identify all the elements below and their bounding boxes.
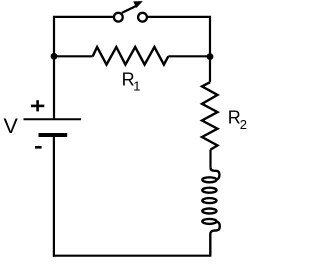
battery minus sign <box>35 146 42 149</box>
battery V top plate (+) <box>24 118 82 120</box>
node A junction dot left <box>51 53 58 60</box>
node B junction dot right <box>207 53 214 60</box>
inductor L1 loop 5 <box>202 219 216 224</box>
inductor L1 loop 2 <box>202 188 216 193</box>
switch S1 lever <box>122 5 138 13</box>
wire: middle row right segment <box>168 55 210 57</box>
resistor R1 <box>93 47 169 65</box>
svg-text:1: 1 <box>133 78 140 93</box>
inductor L1 loop 4 <box>202 209 216 214</box>
battery plus sign <box>31 100 44 111</box>
wire: left vertical lower (battery minus to bottom wire) <box>53 135 55 257</box>
wire: short vertical between R2 and inductor <box>209 150 211 168</box>
wire: bottom wire <box>53 255 212 257</box>
battery V bottom plate (-) <box>39 133 68 137</box>
switch S1 arrowhead <box>133 1 143 8</box>
inductor L1 loop 1 <box>202 177 216 182</box>
inductor L1 top hook <box>211 167 220 179</box>
wire: middle row left segment <box>54 55 93 57</box>
inductor L1 loop 3 <box>202 198 216 203</box>
svg-text:2: 2 <box>240 117 247 132</box>
switch S1 right contact circle <box>138 13 147 22</box>
svg-text:V: V <box>4 114 19 138</box>
resistor R2 <box>202 82 218 149</box>
inductor L1 bottom hook + wire down to bottom <box>210 221 219 255</box>
switch S1 left contact circle <box>114 13 123 22</box>
wire: top-left loop (left vertical upper + top wire left segment) <box>54 17 113 119</box>
wire: top wire right segment + right vertical down to R2 <box>148 17 210 82</box>
